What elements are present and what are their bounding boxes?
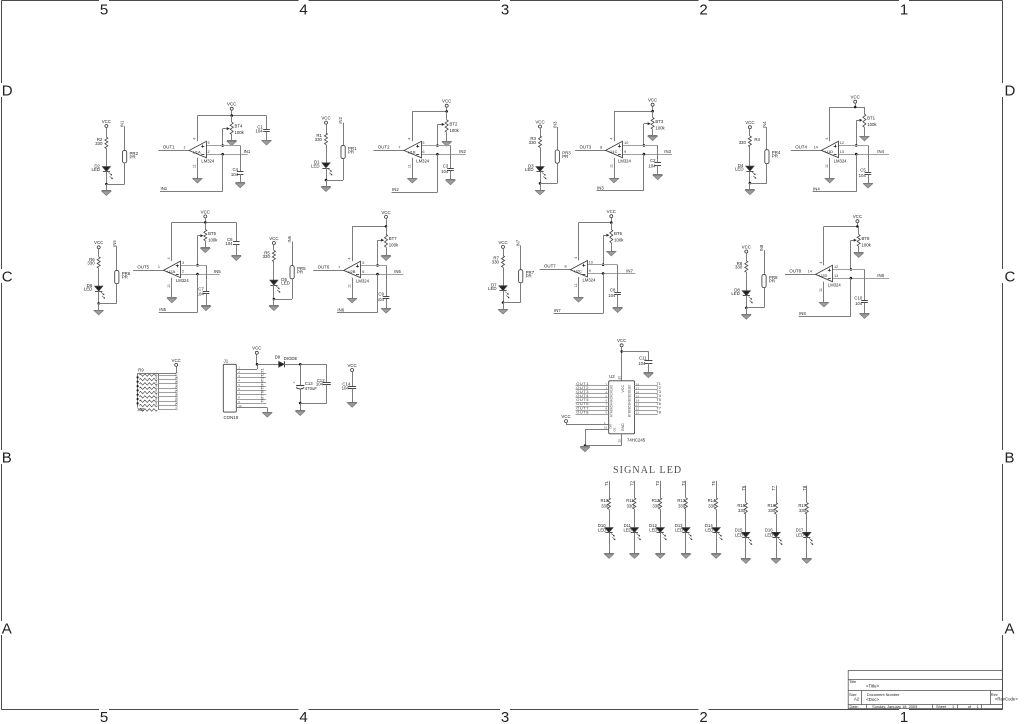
- op-amp U2A LM324: [164, 261, 181, 278]
- svg-text:2: 2: [182, 270, 184, 274]
- svg-text:U2A: U2A: [167, 269, 175, 274]
- svg-text:330: 330: [708, 503, 716, 508]
- wire pin 10 GND: [621, 434, 623, 446]
- svg-text:104: 104: [342, 386, 350, 391]
- LED D1: [322, 163, 330, 168]
- ground: [262, 140, 272, 142]
- svg-text:LED: LED: [488, 286, 497, 291]
- svg-text:A: A: [2, 620, 12, 637]
- LED D3: [536, 167, 544, 172]
- svg-text:OUT8: OUT8: [174, 402, 178, 410]
- wire: [657, 165, 659, 175]
- power symbol VCC: [565, 420, 568, 423]
- svg-text:BT4: BT4: [235, 124, 243, 129]
- wire: [648, 351, 650, 360]
- op-amp U1B LM324: [404, 141, 422, 158]
- wire: [557, 163, 559, 183]
- junction: [137, 381, 139, 383]
- potentiometer BT7 100k: [385, 235, 388, 248]
- svg-text:3: 3: [501, 709, 509, 724]
- wire: [361, 274, 404, 276]
- power symbol VCC of R4 branch: [748, 126, 751, 129]
- ground: [193, 178, 203, 180]
- wire: [206, 265, 208, 291]
- wire: [326, 364, 328, 382]
- power symbol VCC: [204, 215, 207, 218]
- svg-text:A0: A0: [610, 385, 614, 389]
- wire: [412, 111, 446, 113]
- svg-text:8: 8: [564, 265, 566, 269]
- svg-text:Date:: Date:: [850, 704, 859, 709]
- wire: [437, 124, 441, 126]
- wire: [716, 481, 718, 498]
- svg-text:LM324: LM324: [583, 278, 596, 283]
- svg-text:BT7: BT7: [389, 236, 397, 241]
- wire: [685, 509, 687, 527]
- ground: [347, 402, 357, 404]
- power symbol VCC of R3 branch: [539, 125, 542, 128]
- potentiometer BT4 100k: [230, 122, 233, 134]
- ground: [446, 179, 456, 181]
- svg-text:OUT8: OUT8: [576, 409, 589, 414]
- svg-text:LED: LED: [675, 528, 683, 533]
- wire: [236, 222, 238, 241]
- svg-text:1: 1: [952, 704, 954, 709]
- junction: [539, 182, 542, 185]
- capacitor C14 104: [348, 386, 356, 388]
- svg-text:T8: T8: [656, 409, 661, 414]
- capacitor C12 104: [323, 382, 331, 384]
- svg-text:330: 330: [768, 508, 776, 513]
- svg-text:10: 10: [618, 439, 622, 443]
- svg-text:VCC: VCC: [347, 363, 356, 368]
- wire: [838, 154, 889, 156]
- wire: [257, 364, 279, 366]
- svg-text:1: 1: [977, 704, 979, 709]
- wire: [326, 385, 328, 403]
- wire: [273, 299, 275, 306]
- wire: [540, 183, 557, 185]
- wire: [540, 147, 542, 166]
- wire: [300, 389, 302, 410]
- wire: [106, 149, 108, 167]
- svg-text:9: 9: [589, 269, 591, 273]
- wire: [806, 514, 808, 532]
- junction: [850, 268, 853, 271]
- wire: [343, 159, 345, 180]
- resistor R15 330: [744, 503, 747, 514]
- ground: [655, 553, 665, 555]
- svg-text:PR: PR: [769, 278, 775, 283]
- svg-text:VCC: VCC: [442, 99, 451, 104]
- wire: [313, 270, 344, 272]
- svg-text:B1: B1: [627, 389, 631, 393]
- svg-text:5: 5: [100, 2, 108, 19]
- capacitor C2 104: [654, 162, 661, 164]
- svg-text:VCC: VCC: [851, 95, 860, 100]
- svg-text:R11: R11: [626, 498, 634, 503]
- junction: [97, 302, 100, 305]
- svg-text:104: 104: [859, 173, 867, 178]
- junction: [602, 272, 605, 275]
- wire: [635, 385, 658, 387]
- svg-text:A2: A2: [610, 393, 614, 397]
- wire: [266, 116, 268, 130]
- svg-text:LM324: LM324: [834, 158, 847, 163]
- svg-text:10: 10: [238, 404, 242, 408]
- capacitor C5 104: [865, 172, 872, 174]
- wire: [352, 226, 386, 228]
- wire: [864, 303, 866, 314]
- svg-text:PR: PR: [297, 270, 303, 275]
- svg-text:D: D: [1005, 82, 1016, 99]
- svg-text:104: 104: [316, 382, 324, 387]
- svg-text:LM324: LM324: [618, 158, 631, 163]
- ground: [201, 305, 211, 307]
- wire: [274, 299, 292, 301]
- ground: [408, 178, 418, 180]
- svg-text:104: 104: [648, 163, 656, 168]
- wire: [823, 282, 825, 302]
- op-amp U2D LM324: [816, 265, 833, 282]
- wire: [623, 154, 672, 156]
- ground: [681, 553, 691, 555]
- svg-text:VCC: VCC: [617, 338, 626, 343]
- svg-text:R15: R15: [737, 503, 745, 508]
- power symbol VCC of R7 branch: [502, 245, 505, 248]
- ground: [745, 189, 755, 191]
- svg-text:12: 12: [840, 141, 844, 145]
- svg-text:4: 4: [574, 257, 578, 259]
- svg-text:2: 2: [699, 709, 707, 724]
- wire: [576, 402, 609, 404]
- connector J1 CON10 body: [223, 364, 236, 412]
- wire: [284, 364, 327, 366]
- wire: [614, 158, 616, 178]
- svg-text:T2: T2: [629, 480, 634, 486]
- svg-text:VCC: VCC: [853, 214, 862, 219]
- wire: [833, 269, 865, 271]
- wire: [611, 223, 613, 230]
- ground: [263, 412, 273, 414]
- svg-text:2: 2: [208, 150, 210, 154]
- wire: [421, 154, 466, 156]
- resistor R1 330: [325, 133, 328, 144]
- op-amp U1C LM324: [606, 141, 623, 158]
- svg-text:BT2: BT2: [450, 122, 458, 127]
- svg-text:11: 11: [408, 164, 412, 168]
- power symbol VCC: [620, 344, 623, 347]
- wire: [851, 240, 854, 242]
- junction: [855, 153, 858, 156]
- wire: [159, 396, 177, 398]
- svg-text:330: 330: [95, 141, 103, 146]
- LED D7: [499, 286, 507, 291]
- svg-text:Sunday, January 18, 2009: Sunday, January 18, 2009: [872, 704, 917, 709]
- ground: [235, 182, 245, 184]
- wire: [106, 172, 108, 184]
- svg-text:8: 8: [600, 145, 602, 149]
- wire: [231, 110, 233, 115]
- wire: [850, 278, 852, 317]
- ground: [102, 190, 112, 192]
- resistor R2 330: [105, 137, 108, 149]
- svg-text:LED: LED: [731, 291, 740, 296]
- svg-text:J1: J1: [224, 358, 229, 363]
- svg-text:D9: D9: [275, 354, 281, 359]
- svg-text:13: 13: [834, 274, 838, 278]
- svg-text:B3: B3: [627, 397, 631, 401]
- svg-text:OUT6: OUT6: [318, 264, 330, 269]
- junction: [137, 385, 139, 387]
- wire: [361, 265, 386, 267]
- resistor R3 330: [539, 136, 542, 147]
- svg-text:330: 330: [652, 503, 660, 508]
- svg-text:OUT3: OUT3: [580, 144, 592, 149]
- svg-text:100k: 100k: [862, 243, 872, 248]
- svg-text:10: 10: [624, 141, 628, 145]
- svg-text:OUT8: OUT8: [789, 268, 801, 273]
- svg-text:VCC: VCC: [621, 385, 625, 393]
- junction: [602, 263, 605, 266]
- ground: [607, 251, 617, 253]
- wire: [576, 397, 609, 399]
- svg-text:IN5: IN5: [159, 307, 166, 312]
- wire: [824, 226, 859, 228]
- svg-text:3: 3: [501, 2, 509, 19]
- photoresistor PR2 PR: [123, 150, 127, 163]
- LED D4: [746, 166, 754, 171]
- wire: [776, 538, 778, 559]
- svg-text:<RevCode>: <RevCode>: [995, 697, 1018, 702]
- wire: [578, 223, 580, 261]
- junction: [856, 225, 859, 228]
- wire: [343, 123, 345, 146]
- ground: [604, 553, 614, 555]
- wire: [806, 486, 808, 503]
- wire: [750, 183, 767, 185]
- wire: [576, 385, 609, 387]
- svg-text:LED: LED: [705, 528, 713, 533]
- svg-text:CON10: CON10: [224, 415, 239, 420]
- svg-text:IN3: IN3: [597, 185, 604, 190]
- ground: [711, 553, 721, 555]
- wire: [171, 278, 173, 298]
- wire: [172, 222, 236, 224]
- svg-text:PR: PR: [348, 149, 354, 154]
- wire: [587, 264, 617, 266]
- power symbol VCC: [230, 107, 233, 110]
- wire: [785, 274, 816, 276]
- power symbol VCC: [856, 220, 859, 223]
- svg-text:LED: LED: [525, 167, 534, 172]
- ground: [860, 136, 870, 138]
- svg-text:330: 330: [87, 261, 95, 266]
- svg-text:R9: R9: [138, 368, 144, 373]
- svg-text:LED: LED: [623, 528, 631, 533]
- svg-text:VCC: VCC: [607, 209, 616, 214]
- svg-text:A1: A1: [610, 389, 614, 393]
- resistor R14 330: [715, 498, 718, 510]
- resistor R9 element 2: [139, 378, 157, 381]
- svg-text:IN5: IN5: [214, 269, 221, 274]
- wire: [197, 115, 266, 117]
- power symbol VCC: [445, 104, 448, 107]
- ground: [653, 174, 663, 176]
- wire pin 10: [236, 407, 267, 409]
- svg-text:104: 104: [225, 241, 233, 246]
- junction: [196, 264, 199, 267]
- svg-text:LM324: LM324: [201, 158, 214, 163]
- wire: [776, 514, 778, 532]
- svg-text:VCC: VCC: [172, 358, 181, 363]
- resistor R13 330: [684, 498, 687, 510]
- svg-text:330: 330: [627, 503, 635, 508]
- svg-text:7: 7: [338, 265, 340, 269]
- resistor R5 330: [272, 250, 275, 261]
- svg-text:C: C: [1005, 268, 1016, 285]
- svg-text:U1C: U1C: [610, 149, 618, 154]
- wire pin 1: [236, 369, 257, 371]
- svg-text:B2: B2: [627, 393, 631, 397]
- svg-text:11: 11: [819, 288, 823, 292]
- wire: [557, 127, 559, 150]
- svg-text:A7: A7: [610, 413, 614, 417]
- svg-text:U1B: U1B: [408, 149, 416, 154]
- junction: [855, 144, 858, 147]
- svg-text:4: 4: [819, 261, 823, 263]
- wire: [352, 372, 354, 387]
- resistor R16 330: [775, 503, 778, 514]
- wire: [764, 250, 766, 274]
- wire: [273, 262, 275, 281]
- svg-text:U1A: U1A: [193, 149, 201, 154]
- potentiometer BT2 100k: [445, 120, 448, 132]
- wire: [617, 295, 619, 308]
- junction: [854, 106, 857, 109]
- svg-text:4: 4: [167, 257, 171, 259]
- wire: [231, 116, 233, 123]
- ground: [201, 247, 211, 249]
- wire: [776, 486, 778, 503]
- resistor R11 330: [633, 498, 636, 510]
- svg-text:U2B: U2B: [348, 269, 356, 274]
- wire: [635, 414, 658, 416]
- wire: [576, 410, 609, 412]
- svg-text:10: 10: [589, 260, 593, 264]
- wire: [575, 150, 606, 152]
- junction: [376, 273, 379, 276]
- wire: [749, 183, 751, 190]
- ground: [630, 553, 640, 555]
- svg-text:7: 7: [398, 145, 400, 149]
- svg-text:330: 330: [137, 407, 145, 412]
- svg-text:LED: LED: [765, 532, 773, 537]
- LED D2: [102, 167, 110, 172]
- svg-text:IN6: IN6: [287, 235, 292, 242]
- svg-text:104: 104: [231, 172, 239, 177]
- svg-text:VCC: VCC: [252, 346, 261, 351]
- ground: [321, 186, 331, 188]
- svg-text:5: 5: [362, 261, 364, 265]
- junction: [299, 402, 302, 405]
- wire: [503, 249, 505, 256]
- wire: [181, 274, 220, 276]
- potentiometer BT3 100k: [651, 118, 654, 130]
- svg-text:330: 330: [529, 140, 537, 145]
- wire: [864, 127, 866, 136]
- diode D9: [279, 362, 285, 368]
- wire: [614, 111, 653, 113]
- svg-text:IN4: IN4: [877, 149, 884, 154]
- LED D13: [682, 528, 690, 533]
- svg-text:IN7: IN7: [554, 308, 561, 313]
- svg-text:IN7: IN7: [626, 268, 633, 273]
- svg-text:<Doc>: <Doc>: [866, 697, 879, 702]
- power symbol VCC: [351, 369, 354, 372]
- svg-text:330: 330: [735, 265, 743, 270]
- junction: [137, 376, 139, 378]
- photoresistor PR3 PR: [555, 150, 559, 163]
- wire: [197, 158, 199, 178]
- svg-text:VCC: VCC: [498, 240, 507, 245]
- wire: [838, 145, 868, 147]
- wire: [576, 406, 609, 408]
- power symbol VCC: [651, 103, 654, 106]
- svg-text:T1: T1: [604, 480, 609, 486]
- resistor R4 330: [748, 136, 751, 147]
- potentiometer BT8 100k: [857, 235, 860, 247]
- wire: [137, 373, 139, 407]
- op-amp U1D LM324: [821, 141, 838, 158]
- ground: [442, 141, 452, 143]
- wire: [240, 146, 242, 172]
- svg-text:9: 9: [624, 150, 626, 154]
- ground: [227, 140, 237, 142]
- junction: [221, 144, 224, 147]
- wire: [326, 180, 343, 182]
- wire: [746, 272, 748, 291]
- svg-text:BT8: BT8: [862, 236, 870, 241]
- wire: [746, 253, 748, 261]
- svg-text:4: 4: [299, 2, 307, 19]
- junction: [221, 153, 224, 156]
- LED D5: [270, 280, 278, 285]
- ground: [295, 410, 305, 412]
- svg-text:13: 13: [840, 150, 844, 154]
- power symbol VCC: [255, 351, 258, 354]
- potentiometer BT6 100k: [610, 230, 613, 243]
- wire: [833, 278, 889, 280]
- svg-text:T3: T3: [655, 480, 660, 486]
- capacitor C9 104: [383, 296, 390, 298]
- svg-text:B: B: [2, 449, 12, 466]
- photoresistor PR1 PR: [341, 145, 345, 158]
- wire: [520, 283, 522, 303]
- potentiometer BT5 100k: [204, 230, 207, 241]
- svg-text:D: D: [2, 82, 13, 99]
- svg-text:IN2: IN2: [459, 149, 466, 154]
- capacitor C1 104: [263, 129, 270, 131]
- wire: [764, 288, 766, 308]
- wire: [766, 127, 768, 150]
- wire: [412, 111, 414, 141]
- svg-text:330: 330: [739, 140, 747, 145]
- svg-text:A4: A4: [610, 401, 614, 405]
- resistor R7 330: [502, 256, 505, 268]
- wire: [634, 481, 636, 498]
- LED D16: [772, 532, 780, 537]
